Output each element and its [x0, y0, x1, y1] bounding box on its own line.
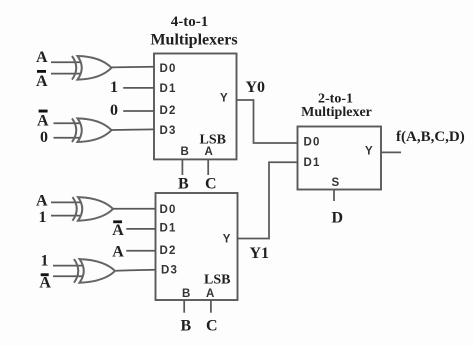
wire 1 to gate3: [51, 215, 88, 217]
select stub C mux2: [210, 300, 212, 313]
wire A to gate1: [51, 61, 87, 63]
svg-text:Y1: Y1: [250, 245, 270, 262]
svg-text:Y: Y: [220, 93, 229, 105]
wire gate3 output to D0 mux2: [113, 208, 156, 210]
title 2-to-1 Multiplexer: [301, 92, 372, 121]
wire A to D2 mux2: [126, 250, 155, 252]
svg-text:A: A: [37, 113, 49, 130]
svg-text:LSB: LSB: [204, 272, 230, 287]
xor gate G4: [74, 259, 115, 283]
label A-bar (D1 input mux2): [112, 220, 124, 239]
wire 1 to gate4: [53, 265, 90, 267]
wire A-bar to gate4: [53, 275, 90, 277]
svg-text:D0: D0: [160, 204, 177, 216]
label A-bar (gate2 input 1): [37, 110, 49, 130]
svg-text:A: A: [36, 49, 48, 66]
svg-text:A: A: [39, 274, 51, 291]
select stub B mux2: [183, 300, 185, 313]
svg-text:A: A: [205, 146, 215, 158]
svg-text:0: 0: [110, 102, 118, 119]
svg-text:D3: D3: [160, 125, 177, 137]
svg-text:D2: D2: [160, 245, 177, 257]
mux U1 4-to-1 box: [154, 54, 237, 160]
svg-text:A: A: [36, 193, 48, 210]
wire A-bar to gate1: [51, 73, 87, 75]
select stub S mux3: [333, 190, 335, 202]
svg-text:0: 0: [40, 129, 48, 146]
svg-text:Y: Y: [223, 234, 232, 246]
svg-text:B: B: [181, 318, 192, 335]
mux U2 4-to-1 box: [156, 193, 238, 300]
wire output f: [381, 151, 401, 153]
svg-text:D0: D0: [304, 136, 321, 148]
title 4-to-1 Multiplexers: [150, 14, 237, 49]
select stub B mux1: [181, 159, 183, 175]
svg-text:D: D: [332, 210, 344, 227]
svg-text:1: 1: [110, 79, 118, 96]
xor gate G2: [72, 118, 112, 142]
svg-text:1: 1: [39, 209, 47, 226]
svg-text:D2: D2: [160, 105, 177, 117]
svg-text:B: B: [178, 176, 189, 193]
wire 0 to gate2: [54, 137, 88, 139]
svg-text:B: B: [181, 146, 191, 158]
svg-text:D1: D1: [160, 83, 177, 95]
svg-text:B: B: [182, 288, 192, 300]
svg-text:S: S: [332, 177, 341, 189]
wire A-bar to D1 mux2: [126, 228, 155, 230]
svg-text:4-to-1: 4-to-1: [171, 14, 209, 30]
svg-text:Y: Y: [365, 146, 374, 158]
svg-text:A: A: [206, 288, 216, 300]
wire A-bar to gate2: [54, 122, 88, 124]
svg-text:C: C: [206, 318, 218, 335]
wire gate1 output to D0: [112, 66, 155, 69]
wire Y0: mux1 Y to 2-to-1 D0: [237, 100, 298, 143]
wire gate4 output to D3 mux2: [116, 270, 156, 271]
select stub C mux1: [207, 159, 209, 175]
svg-text:C: C: [205, 176, 217, 193]
svg-text:D3: D3: [161, 264, 178, 276]
xor gate G1: [72, 56, 112, 80]
label A-bar (gate4 input 2): [39, 273, 51, 291]
svg-text:D1: D1: [304, 157, 321, 169]
svg-text:f(A,B,C,D): f(A,B,C,D): [396, 129, 465, 145]
wire 1 to D1: [123, 87, 154, 89]
svg-text:D1: D1: [160, 223, 177, 235]
wire 0 to D2: [123, 110, 154, 112]
svg-text:Multiplexers: Multiplexers: [150, 32, 237, 49]
label A-bar (gate1 input 2): [36, 70, 48, 90]
wire A to gate3: [51, 201, 88, 203]
svg-text:D0: D0: [160, 63, 177, 75]
wire gate2 output to D3: [112, 128, 155, 131]
wire Y1: mux2 Y to 2-to-1 D1: [238, 162, 298, 238]
svg-text:A: A: [36, 73, 48, 90]
xor gate G3: [73, 197, 114, 221]
mux U3 2-to-1 box: [298, 127, 382, 190]
svg-text:1: 1: [41, 253, 49, 270]
svg-text:A: A: [112, 222, 124, 239]
svg-text:Multiplexer: Multiplexer: [301, 105, 372, 120]
svg-text:A: A: [112, 243, 124, 260]
svg-text:Y0: Y0: [246, 79, 266, 96]
